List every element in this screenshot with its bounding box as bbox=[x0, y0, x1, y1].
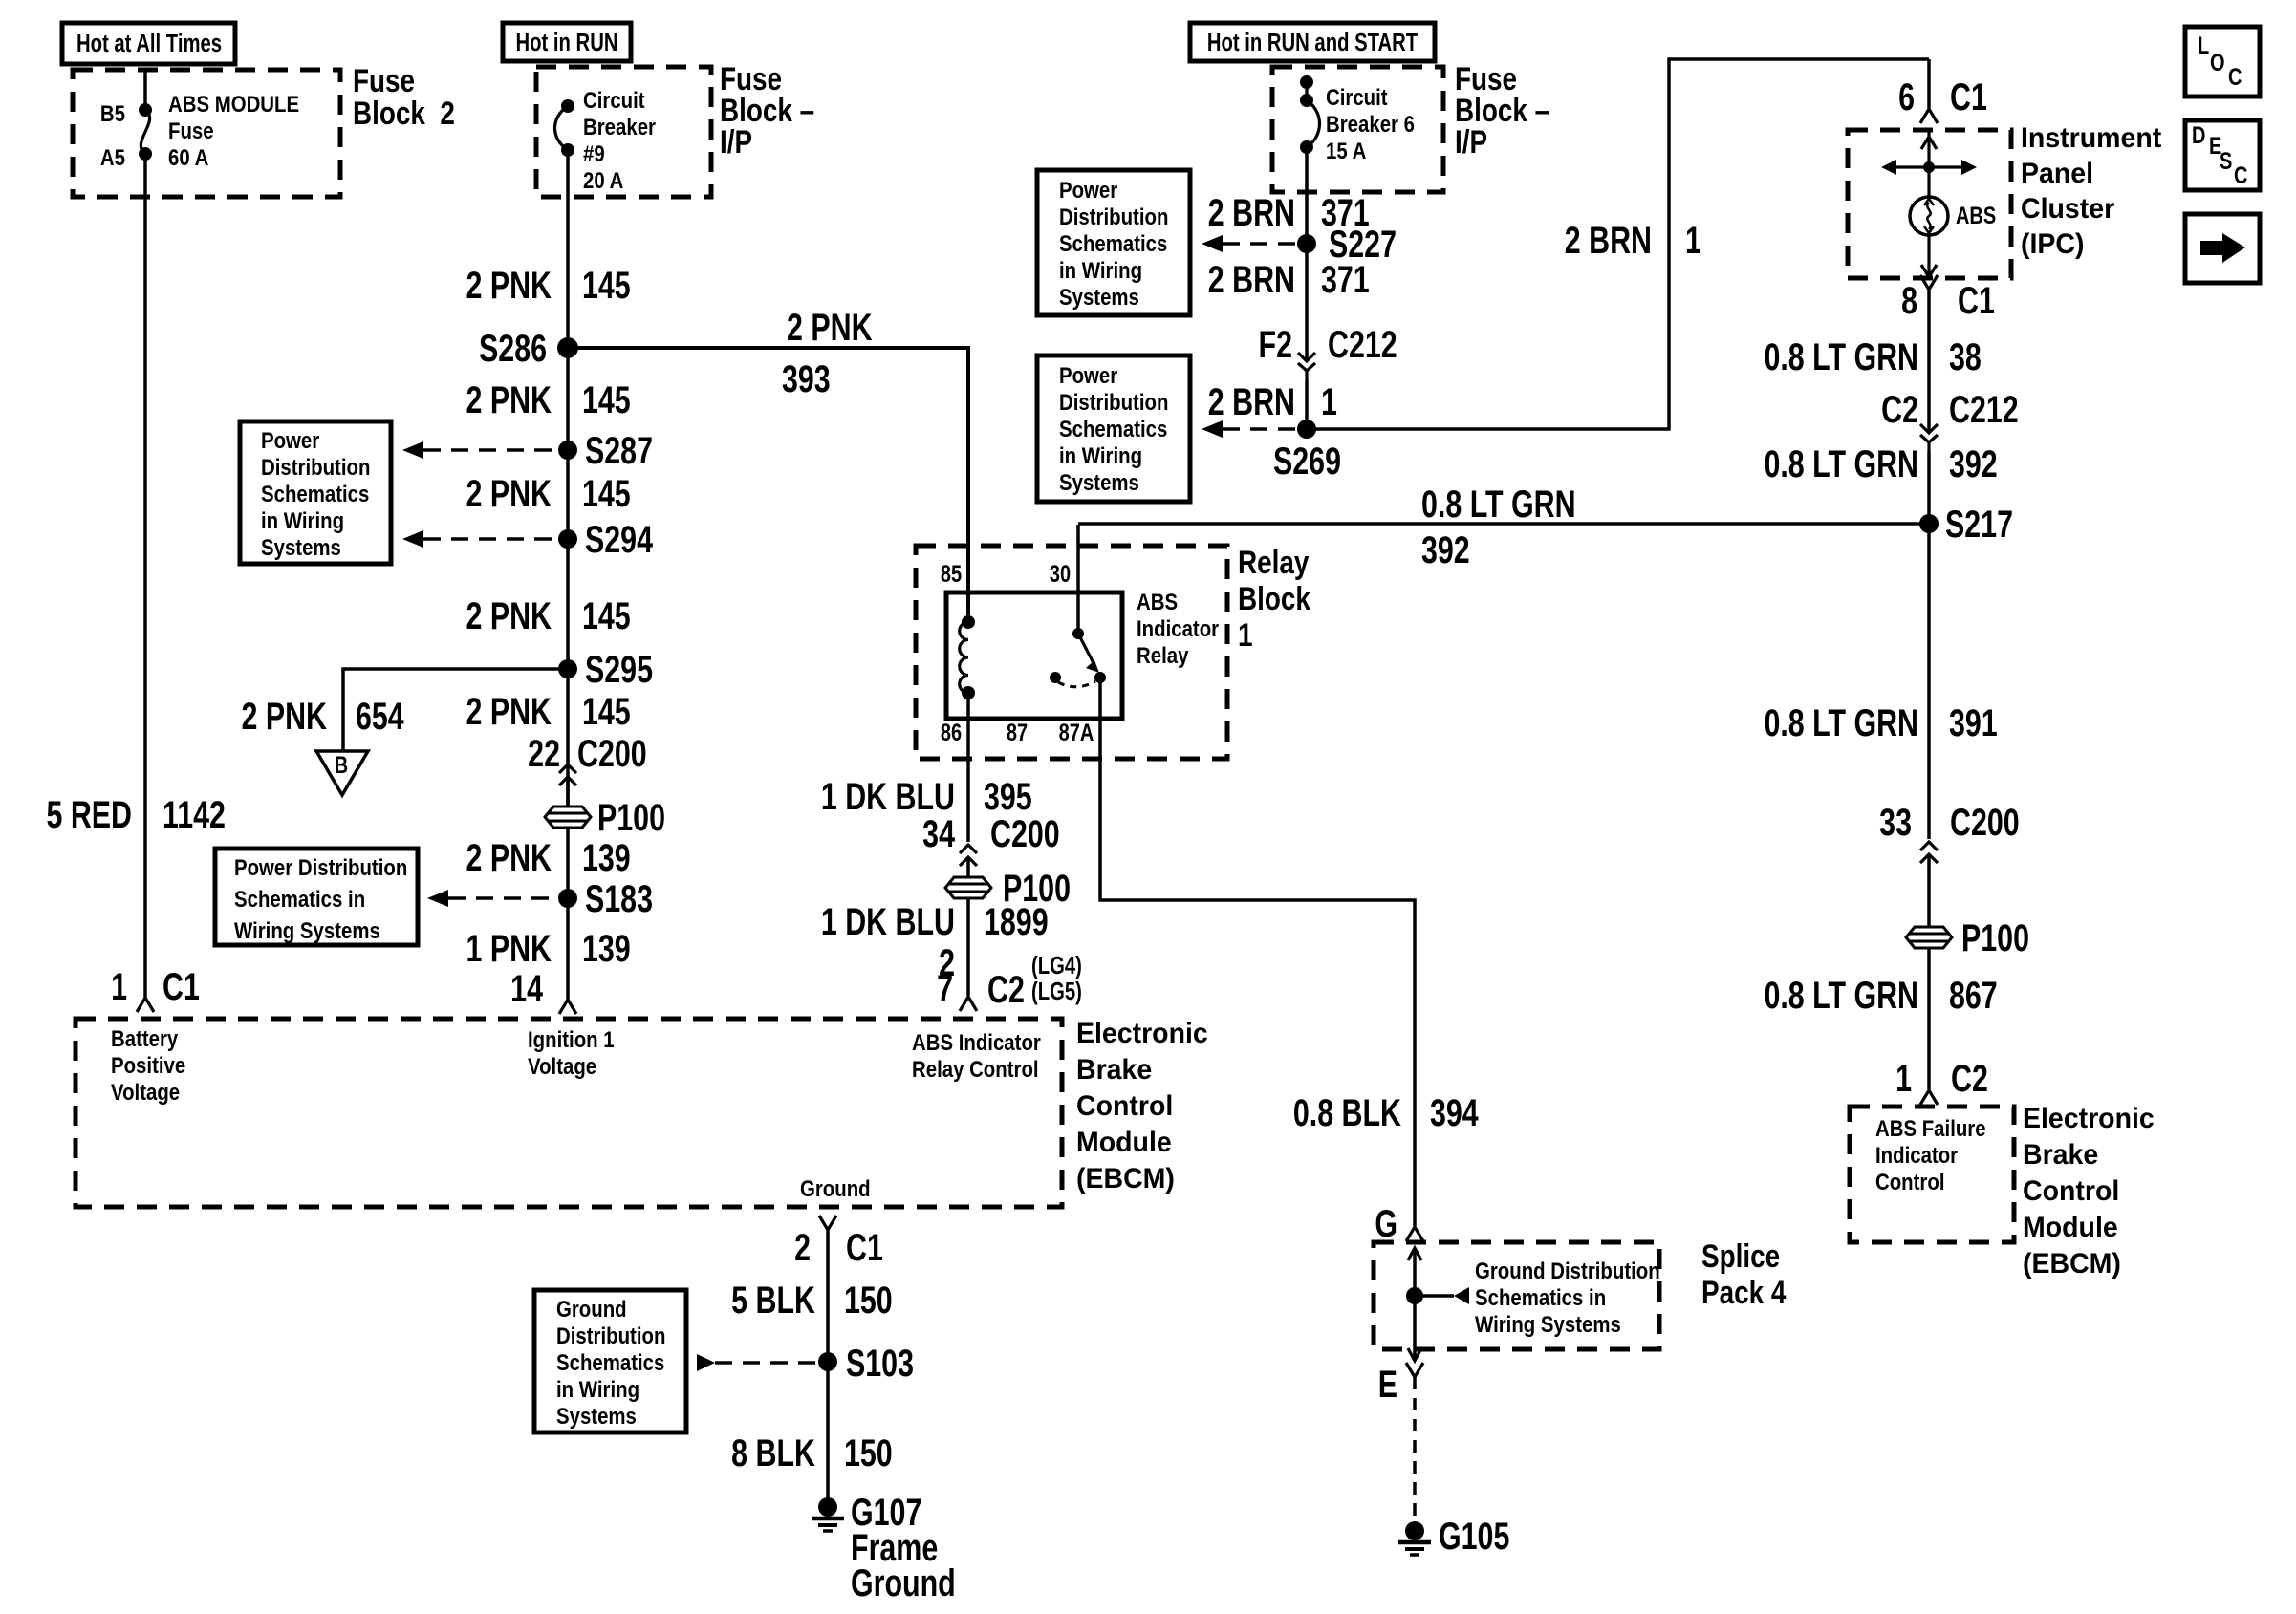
svg-text:E: E bbox=[1378, 1363, 1397, 1406]
svg-text:Hot in RUN and START: Hot in RUN and START bbox=[1207, 29, 1418, 56]
svg-text:20 A: 20 A bbox=[583, 167, 623, 193]
svg-text:2 BRN: 2 BRN bbox=[1208, 191, 1295, 234]
DESC box bbox=[2185, 120, 2260, 190]
svg-text:(LG4): (LG4) bbox=[1031, 952, 1082, 979]
svg-text:1: 1 bbox=[1238, 616, 1253, 653]
ground G107 bbox=[812, 1491, 956, 1604]
svg-text:5 BLK: 5 BLK bbox=[731, 1279, 815, 1322]
node S183 with ref arrow bbox=[427, 877, 653, 920]
wire: 0.8 LT GRN 392 vertical bbox=[1927, 452, 1931, 839]
svg-text:S286: S286 bbox=[479, 327, 547, 370]
svg-text:2 PNK: 2 PNK bbox=[466, 264, 552, 307]
wire: 0.8 LT GRN 867 bbox=[1927, 948, 1931, 1089]
wire: 0.8 LT GRN 38 bbox=[1927, 290, 1931, 432]
wire: 1 DK BLU 395 bbox=[966, 693, 970, 842]
svg-text:C1: C1 bbox=[1950, 75, 1987, 118]
svg-text:1 DK BLU: 1 DK BLU bbox=[821, 900, 955, 943]
pin E out of splice pack bbox=[1378, 1363, 1423, 1406]
EBCM dashed box bbox=[76, 1019, 1062, 1207]
label 5 RED 1142 bbox=[46, 793, 225, 836]
svg-text:60 A: 60 A bbox=[168, 144, 208, 170]
EBCM pin label Battery Positive Voltage bbox=[111, 1025, 185, 1105]
svg-text:P100: P100 bbox=[597, 796, 665, 839]
svg-text:Voltage: Voltage bbox=[111, 1079, 180, 1105]
label 1 PNK 139 bbox=[466, 927, 630, 970]
svg-text:C212: C212 bbox=[1949, 388, 2019, 431]
svg-text:Wiring Systems: Wiring Systems bbox=[234, 917, 380, 943]
label Fuse Block - I/P (2) bbox=[1455, 60, 1549, 160]
svg-text:C2: C2 bbox=[1951, 1057, 1988, 1100]
svg-text:33: 33 bbox=[1879, 801, 1912, 844]
label 8 BLK 150 bbox=[731, 1431, 893, 1474]
svg-text:6: 6 bbox=[1898, 75, 1915, 118]
label ABS Indicator Relay bbox=[1137, 589, 1219, 668]
wire: 2 BRN 1 to IPC bbox=[1307, 59, 1929, 429]
header "Hot in RUN and START" bbox=[1190, 23, 1435, 61]
svg-text:Relay Control: Relay Control bbox=[912, 1056, 1039, 1082]
IPC horizontal bus double arrow bbox=[1881, 160, 1977, 175]
svg-text:G105: G105 bbox=[1439, 1515, 1509, 1558]
svg-text:8: 8 bbox=[1901, 279, 1917, 322]
label 0.8 LT GRN 392 bbox=[1764, 442, 1997, 485]
label Electronic Brake Control Module (EBCM) left bbox=[1076, 1018, 1208, 1194]
svg-text:Power: Power bbox=[1059, 177, 1118, 203]
relay pin 85 label bbox=[941, 561, 962, 588]
svg-text:0.8 LT GRN: 0.8 LT GRN bbox=[1764, 335, 1918, 378]
svg-text:Indicator: Indicator bbox=[1875, 1142, 1958, 1168]
node S295 bbox=[558, 648, 653, 691]
svg-text:C200: C200 bbox=[990, 812, 1060, 855]
svg-text:P100: P100 bbox=[1961, 916, 2029, 959]
node S294 with ref arrow bbox=[402, 518, 653, 561]
splice pack 4 dashed box bbox=[1374, 1242, 1659, 1349]
svg-text:Breaker: Breaker bbox=[583, 114, 656, 140]
svg-text:S: S bbox=[2220, 148, 2232, 175]
label ABS (lamp) bbox=[1956, 203, 1996, 229]
svg-text:2 PNK: 2 PNK bbox=[466, 472, 552, 515]
svg-text:I/P: I/P bbox=[1455, 123, 1487, 160]
pin 14 into EBCM bbox=[510, 967, 576, 1014]
off-page triangle B bbox=[316, 751, 368, 795]
relay pin 87A label bbox=[1059, 720, 1094, 746]
svg-text:Splice: Splice bbox=[1701, 1237, 1780, 1274]
wire: 1 DK BLU 1899 bbox=[966, 898, 970, 996]
label 0.8 BLK 394 bbox=[1293, 1091, 1479, 1134]
svg-text:392: 392 bbox=[1949, 442, 1998, 485]
svg-text:C1: C1 bbox=[846, 1226, 883, 1269]
label 0.8 LT GRN 391 bbox=[1764, 701, 1997, 744]
label 2 PNK 393 bbox=[782, 306, 873, 400]
svg-text:654: 654 bbox=[356, 695, 404, 738]
svg-text:2 PNK: 2 PNK bbox=[466, 594, 552, 637]
wire: 2 BRN 1 bbox=[1305, 380, 1309, 429]
ABS failure indicator dashed box bbox=[1850, 1107, 2014, 1242]
middle power distribution box 1 bbox=[1037, 170, 1190, 315]
LOC box bbox=[2185, 27, 2260, 97]
fuse "ABS MODULE Fuse 60 A" (B5-A5) bbox=[100, 70, 299, 170]
svg-text:145: 145 bbox=[582, 472, 631, 515]
wire: 0.8 BLK 394 from 87A bbox=[1100, 678, 1415, 1226]
svg-text:Breaker 6: Breaker 6 bbox=[1326, 111, 1415, 137]
label 1 DK BLU 1899 bbox=[821, 900, 1049, 943]
svg-text:Brake: Brake bbox=[2023, 1139, 2098, 1171]
svg-text:(LG5): (LG5) bbox=[1031, 978, 1082, 1005]
svg-text:in Wiring: in Wiring bbox=[261, 507, 344, 533]
relay pin 87 label bbox=[1007, 720, 1028, 746]
svg-text:86: 86 bbox=[941, 720, 962, 746]
svg-text:C1: C1 bbox=[162, 965, 200, 1008]
svg-text:C200: C200 bbox=[577, 732, 647, 775]
svg-text:2 PNK: 2 PNK bbox=[466, 690, 552, 733]
relay block dashed box bbox=[916, 546, 1227, 759]
IPC internal wire with arrows bbox=[1921, 130, 1937, 278]
svg-text:Hot at All Times: Hot at All Times bbox=[76, 30, 222, 57]
svg-text:Systems: Systems bbox=[556, 1403, 637, 1429]
forward arrow box bbox=[2185, 214, 2260, 283]
svg-text:2 BRN: 2 BRN bbox=[1208, 258, 1295, 301]
label 2 PNK 145 (e) bbox=[466, 690, 630, 733]
node S286 bbox=[479, 327, 578, 370]
svg-text:Panel: Panel bbox=[2021, 158, 2093, 189]
svg-text:S269: S269 bbox=[1273, 440, 1341, 483]
svg-text:145: 145 bbox=[582, 690, 631, 733]
svg-text:1: 1 bbox=[1685, 219, 1701, 262]
svg-text:ABS: ABS bbox=[1137, 589, 1178, 614]
node S217 bbox=[1919, 503, 2013, 546]
svg-text:Control: Control bbox=[1875, 1169, 1945, 1194]
circuit breaker 6 15 A bbox=[1300, 75, 1415, 163]
label 2 PNK 654 bbox=[241, 695, 403, 738]
svg-text:371: 371 bbox=[1321, 258, 1370, 301]
svg-text:ABS Failure: ABS Failure bbox=[1875, 1115, 1986, 1141]
label 2 BRN 1 (a) bbox=[1208, 380, 1337, 423]
svg-text:C212: C212 bbox=[1328, 323, 1397, 366]
svg-text:1: 1 bbox=[1895, 1057, 1912, 1100]
svg-text:1: 1 bbox=[111, 965, 127, 1008]
node S269 with ref arrow bbox=[1202, 420, 1341, 483]
svg-text:0.8 BLK: 0.8 BLK bbox=[1293, 1091, 1401, 1134]
svg-text:C2: C2 bbox=[987, 968, 1025, 1011]
svg-text:Cluster: Cluster bbox=[2021, 193, 2114, 225]
label 2 PNK 139 bbox=[466, 836, 630, 879]
svg-text:Schematics in: Schematics in bbox=[234, 886, 365, 912]
svg-text:Power: Power bbox=[261, 427, 320, 453]
pin 7 C2 (LG5) into EBCM bbox=[937, 967, 1082, 1011]
svg-text:Schematics: Schematics bbox=[1059, 416, 1167, 441]
fuse block I/P dashed box (2) bbox=[1272, 67, 1443, 192]
svg-text:150: 150 bbox=[844, 1431, 893, 1474]
svg-text:Positive: Positive bbox=[111, 1052, 185, 1078]
wire: 0.8 LT GRN 392 horizontal S217 to relay bbox=[1078, 522, 1929, 526]
relay switch 30-87A bbox=[1050, 628, 1106, 687]
connector C2 C212 bbox=[1881, 388, 2019, 452]
svg-text:Ground: Ground bbox=[800, 1175, 871, 1201]
svg-text:392: 392 bbox=[1421, 528, 1470, 571]
svg-text:C200: C200 bbox=[1950, 801, 2020, 844]
svg-text:Systems: Systems bbox=[1059, 469, 1139, 495]
svg-text:Fuse: Fuse bbox=[168, 118, 214, 143]
svg-text:(IPC): (IPC) bbox=[2021, 228, 2084, 260]
wire: 2 BRN 371 bbox=[1305, 147, 1309, 359]
fuse block 2 dashed box bbox=[73, 70, 340, 197]
svg-text:7: 7 bbox=[937, 967, 953, 1010]
svg-text:391: 391 bbox=[1949, 701, 1998, 744]
svg-text:in Wiring: in Wiring bbox=[1059, 257, 1142, 283]
node S103 with ref arrow bbox=[697, 1342, 914, 1385]
svg-text:8 BLK: 8 BLK bbox=[731, 1431, 815, 1474]
splice junction with ref arrow bbox=[1406, 1258, 1660, 1337]
svg-text:Relay: Relay bbox=[1238, 544, 1310, 580]
EBCM pin label Ignition 1 Voltage bbox=[528, 1026, 615, 1079]
svg-text:Schematics: Schematics bbox=[261, 481, 369, 506]
svg-text:Ground: Ground bbox=[556, 1296, 627, 1322]
grommet P100 (ignition) bbox=[545, 796, 665, 839]
wire: 2 PNK 654 branch bbox=[343, 669, 568, 751]
svg-text:Module: Module bbox=[1076, 1127, 1172, 1158]
EBCM pin label Ground bbox=[800, 1175, 871, 1201]
node S227 with ref arrow bbox=[1202, 223, 1397, 266]
svg-text:B: B bbox=[335, 752, 348, 779]
grommet P100 (right) bbox=[1906, 916, 2029, 959]
svg-text:Electronic: Electronic bbox=[2023, 1103, 2155, 1134]
svg-text:Schematics in: Schematics in bbox=[1475, 1284, 1606, 1310]
svg-text:2 PNK: 2 PNK bbox=[466, 836, 552, 879]
header "Hot at All Times" bbox=[62, 23, 235, 64]
svg-text:Circuit: Circuit bbox=[583, 87, 645, 113]
svg-text:S217: S217 bbox=[1945, 503, 2013, 546]
svg-text:(EBCM): (EBCM) bbox=[2023, 1248, 2121, 1280]
svg-text:Systems: Systems bbox=[261, 534, 341, 560]
svg-text:Wiring Systems: Wiring Systems bbox=[1475, 1311, 1621, 1337]
ground distribution box bbox=[534, 1290, 686, 1432]
svg-text:A5: A5 bbox=[100, 144, 125, 170]
svg-text:Schematics: Schematics bbox=[556, 1349, 664, 1375]
svg-text:Control: Control bbox=[1076, 1090, 1173, 1122]
label 2 PNK 145 (d) bbox=[466, 594, 630, 637]
IPC dashed box bbox=[1848, 130, 2011, 278]
label Relay Block 1 bbox=[1238, 544, 1311, 653]
label 0.8 LT GRN 867 bbox=[1764, 974, 1997, 1017]
svg-text:S287: S287 bbox=[585, 429, 653, 472]
svg-text:Distribution: Distribution bbox=[1059, 204, 1168, 229]
svg-text:85: 85 bbox=[941, 561, 962, 588]
svg-text:Hot in RUN: Hot in RUN bbox=[516, 29, 618, 56]
ABS indicator relay solid box bbox=[946, 592, 1122, 719]
label Instrument Panel Cluster (IPC) bbox=[2021, 122, 2161, 260]
svg-text:2 BRN: 2 BRN bbox=[1565, 219, 1652, 262]
svg-text:87: 87 bbox=[1007, 720, 1028, 746]
svg-text:C: C bbox=[2228, 64, 2242, 91]
svg-text:145: 145 bbox=[582, 594, 631, 637]
svg-text:0.8 LT GRN: 0.8 LT GRN bbox=[1764, 974, 1918, 1017]
svg-text:0.8 LT GRN: 0.8 LT GRN bbox=[1764, 701, 1918, 744]
svg-text:Distribution: Distribution bbox=[556, 1323, 665, 1348]
svg-text:1: 1 bbox=[1321, 380, 1337, 423]
svg-text:C1: C1 bbox=[1958, 279, 1995, 322]
svg-text:I/P: I/P bbox=[720, 123, 752, 160]
svg-text:Voltage: Voltage bbox=[528, 1053, 596, 1079]
svg-text:D: D bbox=[2192, 122, 2205, 149]
svg-text:ABS MODULE: ABS MODULE bbox=[168, 91, 299, 117]
left power distribution box 2 bbox=[215, 849, 418, 945]
svg-text:Distribution: Distribution bbox=[261, 454, 370, 480]
svg-text:Ignition 1: Ignition 1 bbox=[528, 1026, 615, 1052]
svg-text:S183: S183 bbox=[585, 877, 653, 920]
wire: ignition feed 2 PNK 145 bbox=[566, 150, 570, 1000]
svg-text:Brake: Brake bbox=[1076, 1054, 1152, 1086]
label 2 BRN 1 (b) bbox=[1565, 219, 1701, 262]
svg-text:1142: 1142 bbox=[162, 793, 226, 836]
label Splice Pack 4 bbox=[1701, 1237, 1787, 1310]
svg-text:B5: B5 bbox=[100, 100, 125, 126]
connector 22 C200 bbox=[528, 732, 646, 807]
pin 8 C1 out of IPC bbox=[1901, 275, 1995, 322]
wire: ground 5 BLK 150 bbox=[826, 1230, 830, 1507]
wire: 2 PNK 393 branch to relay coil bbox=[568, 348, 968, 622]
svg-text:Instrument: Instrument bbox=[2021, 122, 2161, 154]
svg-text:5 RED: 5 RED bbox=[46, 793, 132, 836]
svg-text:34: 34 bbox=[922, 812, 955, 855]
svg-text:867: 867 bbox=[1949, 974, 1998, 1017]
label 0.8 LT GRN 38 bbox=[1764, 335, 1981, 378]
svg-text:22: 22 bbox=[528, 732, 560, 775]
svg-text:38: 38 bbox=[1949, 335, 1982, 378]
connector F2 C212 bbox=[1259, 323, 1397, 380]
fuse block I/P dashed box bbox=[536, 67, 711, 197]
svg-text:in Wiring: in Wiring bbox=[556, 1376, 639, 1402]
svg-text:145: 145 bbox=[582, 378, 631, 421]
grommet P100 (relay) bbox=[945, 867, 1071, 910]
wire: relay pin 30 feed bbox=[1076, 525, 1080, 634]
svg-text:394: 394 bbox=[1430, 1091, 1479, 1134]
svg-text:O: O bbox=[2210, 50, 2225, 76]
svg-text:F2: F2 bbox=[1259, 323, 1292, 366]
svg-text:#9: #9 bbox=[583, 140, 605, 166]
label 2 PNK 145 (c) bbox=[466, 472, 630, 515]
left power distribution box 1 bbox=[240, 421, 391, 564]
svg-text:2 PNK: 2 PNK bbox=[241, 695, 327, 738]
label 0.8 LT GRN 392 horizontal bbox=[1421, 483, 1576, 571]
pin G into splice pack bbox=[1375, 1202, 1423, 1245]
svg-text:1 PNK: 1 PNK bbox=[466, 927, 552, 970]
label Fuse Block - I/P bbox=[720, 60, 814, 160]
label Electronic Brake Control Module (EBCM) right bbox=[2023, 1103, 2155, 1280]
svg-text:150: 150 bbox=[844, 1279, 893, 1322]
svg-text:(EBCM): (EBCM) bbox=[1076, 1163, 1175, 1194]
svg-text:S103: S103 bbox=[846, 1342, 914, 1385]
relay coil 85-86 bbox=[960, 615, 975, 699]
svg-text:14: 14 bbox=[510, 967, 543, 1010]
svg-text:Relay: Relay bbox=[1137, 642, 1189, 668]
svg-text:Power Distribution: Power Distribution bbox=[234, 854, 407, 880]
svg-text:Electronic: Electronic bbox=[1076, 1018, 1208, 1049]
connector 34 C200 bbox=[922, 812, 1059, 878]
circuit breaker #9 20 A bbox=[555, 87, 657, 193]
svg-text:1899: 1899 bbox=[984, 900, 1049, 943]
wire: 5 RED 1142 battery feed bbox=[143, 154, 147, 998]
svg-text:30: 30 bbox=[1050, 561, 1071, 588]
svg-text:S295: S295 bbox=[585, 648, 653, 691]
label 2 PNK 145 (a) bbox=[466, 264, 630, 307]
svg-text:2 BRN: 2 BRN bbox=[1208, 380, 1295, 423]
label 2 BRN 371 (a) bbox=[1208, 191, 1370, 234]
svg-text:Block 2: Block 2 bbox=[353, 95, 455, 131]
svg-text:Battery: Battery bbox=[111, 1025, 179, 1051]
svg-text:Systems: Systems bbox=[1059, 284, 1139, 310]
svg-text:Distribution: Distribution bbox=[1059, 389, 1168, 415]
pin 2 C1 ground out of EBCM bbox=[794, 1216, 883, 1269]
svg-text:ABS Indicator: ABS Indicator bbox=[912, 1029, 1041, 1055]
splice pack internal wire with arrows bbox=[1408, 1248, 1421, 1361]
svg-text:2 PNK: 2 PNK bbox=[787, 306, 873, 349]
svg-text:0.8 LT GRN: 0.8 LT GRN bbox=[1764, 442, 1918, 485]
svg-text:Circuit: Circuit bbox=[1326, 84, 1388, 110]
pin 1 C2 into EBCM right bbox=[1895, 1057, 1988, 1105]
dashed wire E to G105 bbox=[1413, 1377, 1417, 1521]
node S287 with ref arrow bbox=[402, 429, 653, 472]
svg-text:2: 2 bbox=[794, 1226, 811, 1269]
relay pin 30 label bbox=[1050, 561, 1071, 588]
ABS indicator lamp bbox=[1910, 197, 1948, 235]
svg-text:0.8 LT GRN: 0.8 LT GRN bbox=[1421, 483, 1576, 526]
svg-text:L: L bbox=[2198, 32, 2209, 59]
EBCM pin label ABS Indicator Relay Control bbox=[912, 1029, 1041, 1082]
middle power distribution box 2 bbox=[1037, 355, 1190, 502]
svg-text:G: G bbox=[1375, 1202, 1397, 1245]
label 1 DK BLU 395 bbox=[821, 775, 1032, 818]
label 2 BRN 371 (b) bbox=[1208, 258, 1370, 301]
svg-text:Control: Control bbox=[2023, 1175, 2119, 1207]
svg-text:C: C bbox=[2234, 162, 2247, 189]
svg-text:Schematics: Schematics bbox=[1059, 230, 1167, 256]
svg-text:2 PNK: 2 PNK bbox=[466, 378, 552, 421]
svg-text:Ground Distribution: Ground Distribution bbox=[1475, 1258, 1660, 1283]
svg-text:Pack 4: Pack 4 bbox=[1701, 1274, 1787, 1310]
svg-text:Module: Module bbox=[2023, 1212, 2118, 1243]
svg-text:Indicator: Indicator bbox=[1137, 615, 1219, 641]
svg-text:145: 145 bbox=[582, 264, 631, 307]
svg-text:15 A: 15 A bbox=[1326, 138, 1366, 163]
ground G105 bbox=[1398, 1515, 1509, 1558]
label 5 BLK 150 bbox=[731, 1279, 893, 1322]
label Fuse Block 2 bbox=[353, 62, 455, 131]
pin 1 C1 into EBCM bbox=[111, 965, 200, 1012]
pin 6 C1 into IPC bbox=[1898, 59, 1987, 123]
svg-text:Fuse: Fuse bbox=[353, 62, 415, 98]
svg-text:87A: 87A bbox=[1059, 720, 1094, 746]
svg-text:139: 139 bbox=[582, 927, 631, 970]
svg-text:ABS: ABS bbox=[1956, 203, 1996, 229]
svg-text:Power: Power bbox=[1059, 362, 1118, 388]
svg-text:C2: C2 bbox=[1881, 388, 1918, 431]
svg-text:S294: S294 bbox=[585, 518, 653, 561]
svg-text:Ground: Ground bbox=[851, 1561, 956, 1604]
pin 2 (LG4) label bbox=[939, 941, 1082, 984]
svg-text:139: 139 bbox=[582, 836, 631, 879]
label 2 PNK 145 (b) bbox=[466, 378, 630, 421]
svg-text:393: 393 bbox=[782, 357, 831, 400]
header "Hot in RUN" bbox=[503, 23, 631, 61]
svg-text:in Wiring: in Wiring bbox=[1059, 442, 1142, 468]
relay pin 86 label bbox=[941, 720, 962, 746]
connector 33 C200 bbox=[1879, 801, 2019, 927]
svg-text:Block: Block bbox=[1238, 580, 1311, 616]
